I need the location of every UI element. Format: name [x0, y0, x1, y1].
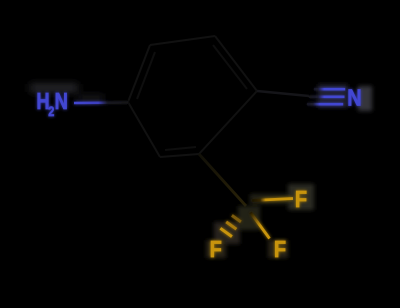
benzene ring (carbon skeleton, near-black): [128, 36, 257, 157]
wire: ring edge F-A (C3-C4): [128, 102, 160, 157]
svg-text:F: F: [274, 235, 286, 262]
bond C7-F bottom-middle (gold): [251, 213, 270, 239]
bond C7-F right (gold): [252, 199, 293, 201]
svg-text:N: N: [55, 89, 68, 115]
svg-text:2: 2: [48, 104, 54, 120]
wire: ring edge E-F (C2-C3): [160, 154, 199, 157]
wire: ring edge B-C (C5-C6): [150, 36, 215, 45]
wire: inner double bond line E-F: [165, 147, 196, 150]
wire: ring edge A-B (C4-C5): [128, 45, 150, 102]
hashed wedge bond C7-F bottom-left (three gold hash strokes): [220, 215, 241, 236]
wire: inner double bond line A-B: [137, 52, 155, 99]
bond N-C4 (amine to ring, blue fading to black): [74, 101, 128, 104]
jpeg artifact smudges: [30, 84, 104, 101]
svg-text:F: F: [295, 185, 307, 212]
wire: ring edge C-D (C6-C1): [215, 36, 257, 91]
svg-text:N: N: [347, 84, 361, 111]
amine label H2N: [36, 89, 68, 119]
wire: ring edge D-E (C1-C2): [199, 91, 257, 154]
wire: inner double bond line C-D: [213, 45, 247, 89]
nitrile triple bond C#N (three lines, blue at N side): [307, 89, 345, 104]
bond C1 to nitrile carbon (dark): [257, 91, 309, 96]
svg-text:F: F: [210, 235, 222, 262]
bond C2 to CF3 carbon (dark olive diagonal): [199, 154, 246, 206]
